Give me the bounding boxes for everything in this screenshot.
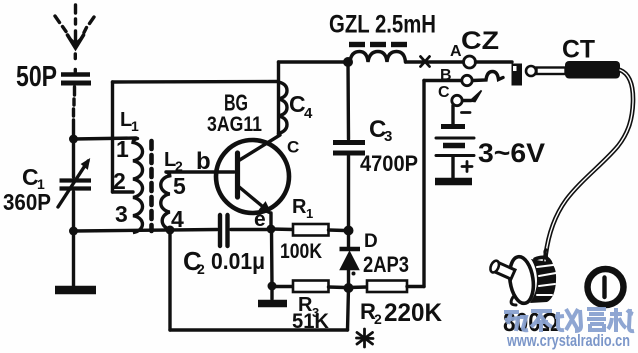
svg-text:CT: CT — [562, 36, 595, 64]
node antenna/L1 top — [69, 135, 78, 144]
wire node to L1 top — [74, 138, 137, 139]
svg-text:4: 4 — [304, 105, 313, 122]
svg-text:2AP3: 2AP3 — [363, 252, 409, 277]
jack terminal B — [462, 75, 472, 85]
wire antenna to node — [74, 87, 75, 139]
capacitor C1 360P variable — [58, 139, 91, 231]
jack terminal A — [464, 56, 476, 68]
capacitor C3 — [333, 62, 365, 227]
bottom rail wire — [170, 230, 349, 330]
watermark — [504, 308, 634, 332]
wire to ground — [270, 286, 273, 299]
capacitor C4 (collector coupling) — [279, 62, 288, 135]
wire node up to top-left rail — [113, 82, 279, 139]
svg-text:2: 2 — [113, 168, 126, 194]
node GZL/C3 — [343, 57, 353, 67]
earphone cable — [545, 70, 633, 261]
wire top rail to GZL — [279, 60, 348, 63]
L1 label — [120, 109, 139, 134]
svg-text:3: 3 — [384, 128, 392, 145]
C contact arrow — [463, 91, 482, 102]
B spring contact — [473, 72, 504, 81]
wire GZL to jack A — [406, 60, 463, 63]
circled 1 (earphone designator) — [588, 269, 624, 305]
jack CZ labels — [438, 27, 499, 101]
crossing mark x — [421, 57, 430, 67]
svg-text:3~6V: 3~6V — [478, 138, 545, 168]
asterisk mark — [357, 329, 374, 347]
svg-text:1: 1 — [116, 136, 129, 162]
plug CT — [526, 61, 620, 79]
node R1/D/C3 — [344, 226, 354, 236]
svg-text:e: e — [254, 208, 266, 231]
node R3 left — [268, 282, 277, 291]
svg-text:0.01μ: 0.01μ — [211, 248, 265, 274]
wire bottom of transformer to C2 — [74, 230, 218, 232]
svg-text:R: R — [292, 196, 307, 218]
node C1 bottom — [69, 227, 78, 236]
resistor R1 — [271, 224, 345, 236]
svg-text:A: A — [450, 43, 462, 60]
diode D 2AP3 — [340, 231, 361, 289]
svg-text:50P: 50P — [16, 61, 57, 93]
svg-text:GZL 2.5mH: GZL 2.5mH — [329, 11, 436, 39]
earphone — [489, 250, 556, 305]
antenna — [55, 5, 94, 59]
capacitor 50P — [61, 70, 91, 84]
node emitter — [267, 225, 276, 234]
transistor Q1 BG 3AG11 — [216, 135, 289, 229]
jack terminal C — [452, 95, 462, 105]
ground (emitter) — [258, 300, 287, 308]
inductor GZL 2.5mH — [349, 45, 407, 63]
wire R2 right up to jack B — [424, 81, 462, 287]
inductor L1 — [133, 139, 143, 233]
wire L2 top to base — [166, 170, 234, 173]
svg-text:360P: 360P — [3, 189, 51, 215]
svg-text:3AG11: 3AG11 — [207, 113, 262, 136]
svg-text:1: 1 — [131, 118, 139, 134]
svg-text:www.crystalradio.cn: www.crystalradio.cn — [506, 332, 630, 350]
node diode/R3/R2/bottom rail — [344, 283, 354, 293]
plug sleeve (jack body) — [512, 64, 523, 86]
battery 3~6V — [435, 106, 474, 182]
svg-text:2: 2 — [374, 311, 382, 327]
node L2 bottom — [166, 226, 175, 235]
resistor R2 — [349, 281, 425, 293]
svg-text:2: 2 — [197, 261, 205, 277]
svg-text:220K: 220K — [384, 299, 442, 327]
svg-text:C: C — [287, 138, 299, 157]
svg-text:3: 3 — [115, 201, 128, 227]
svg-text:b: b — [196, 148, 211, 175]
L2 label — [164, 149, 183, 174]
transformer core — [149, 141, 154, 231]
svg-text:C: C — [438, 84, 450, 101]
svg-text:100K: 100K — [280, 240, 322, 263]
svg-text:D: D — [364, 231, 378, 252]
svg-text:B: B — [440, 67, 452, 84]
wire A to plug sleeve — [476, 60, 513, 63]
inductor L2 — [161, 172, 170, 230]
svg-text:5: 5 — [173, 173, 186, 199]
wire C1 node to ground — [72, 231, 75, 286]
wire tap 2 bracket — [113, 139, 134, 193]
svg-text:CZ: CZ — [461, 27, 499, 55]
svg-text:4700P: 4700P — [360, 151, 418, 176]
resistor R3 — [272, 281, 345, 293]
ground (left) — [55, 286, 96, 295]
capacitor C2 — [220, 215, 267, 246]
svg-text:BG: BG — [224, 90, 248, 116]
svg-text:1: 1 — [306, 206, 313, 221]
wire emitter node down — [270, 229, 274, 286]
